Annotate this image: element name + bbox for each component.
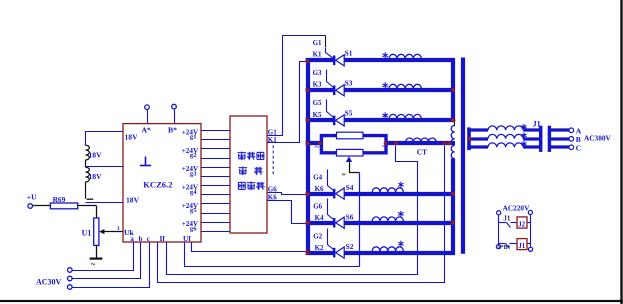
svg-text:S5: S5 xyxy=(345,108,353,117)
terminal circle B xyxy=(569,137,574,142)
trigger board box (six-unit final stage) xyxy=(230,116,267,233)
thyristor S5 cathode bar xyxy=(333,116,335,126)
svg-text:K1: K1 xyxy=(313,51,322,59)
smoothing inductor row S2 xyxy=(372,247,403,251)
junction dot row S6 right bus xyxy=(451,221,455,225)
wire KCZ6.2 output 8 to trigger board xyxy=(202,194,231,196)
wire K6: board to bus at S6 row xyxy=(268,201,306,224)
potentiometer U1 body xyxy=(94,218,99,245)
svg-text:3: 3 xyxy=(340,173,346,176)
terminal circle A xyxy=(569,128,574,133)
contact J1 (rung 1) xyxy=(499,222,507,224)
shunt resistor RS upper xyxy=(337,132,364,139)
terminal B* stub and circle xyxy=(174,110,176,124)
transformer core line xyxy=(461,58,465,254)
junction dot row S4 right bus xyxy=(451,192,455,196)
wire KCZ6.2 output 3 to trigger board xyxy=(202,148,231,150)
wire AC30V-3 to pin c xyxy=(73,243,150,288)
trigger board text line3 触发板 xyxy=(238,182,245,189)
row S1: thick wire thyristor to bus V1 xyxy=(344,58,455,62)
svg-text:a: a xyxy=(130,235,134,243)
junction dot row S3 right bus xyxy=(451,88,455,92)
svg-text:g6: g6 xyxy=(190,225,197,232)
svg-text:b: b xyxy=(139,235,143,243)
primary winding phase C lead xyxy=(467,145,488,148)
row S2: thick wire thyristor to bus V1 xyxy=(344,251,455,255)
svg-text:K5: K5 xyxy=(313,111,322,119)
wire KCZ6.2 output 2 to trigger board xyxy=(202,139,231,141)
left cathode bus (vertical) xyxy=(306,58,310,255)
terminal A* stub and circle xyxy=(147,110,149,124)
svg-text:If: If xyxy=(160,234,166,243)
primary winding phase B lead xyxy=(467,137,488,140)
wire winding to contactor phase B xyxy=(523,137,541,140)
wire G1: board to S1 gate xyxy=(268,36,326,136)
svg-text:R69: R69 xyxy=(53,195,66,204)
wire coil J1 to right rail xyxy=(528,243,531,245)
svg-text:S2: S2 xyxy=(346,242,354,251)
asterisk phase A xyxy=(523,124,525,130)
junction dot V1 top of winding xyxy=(452,119,456,123)
wire G6: board to bus at S4 row xyxy=(268,193,306,195)
junction dot shunt row on left bus xyxy=(306,142,310,146)
svg-text:J1: J1 xyxy=(503,214,511,222)
gate stub S6 xyxy=(328,199,334,220)
ground symbol below U1 xyxy=(90,258,103,260)
svg-text:G2: G2 xyxy=(313,233,322,241)
junction dot row S4 left bus xyxy=(306,192,310,196)
row S1: thick wire bus to thyristor xyxy=(306,58,333,62)
primary winding phase B xyxy=(488,134,523,138)
wire K1: board to cathode bus xyxy=(268,62,306,143)
thyristor S3 triangle xyxy=(336,85,345,96)
svg-text:KCZ6.2: KCZ6.2 xyxy=(143,179,172,189)
asterisk mark row S3 xyxy=(384,82,386,88)
smoothing inductor row S6 xyxy=(372,217,403,221)
resistor R69 xyxy=(50,203,77,209)
svg-text:S3: S3 xyxy=(345,78,353,87)
wire winding to contactor phase A xyxy=(523,128,541,131)
svg-text:G3: G3 xyxy=(313,69,322,77)
junction dot K1 on bus xyxy=(305,59,309,63)
junction dot Uf+ on bus xyxy=(306,250,310,254)
terminal circle AC220V left xyxy=(497,211,501,215)
primary winding phase A lead xyxy=(467,128,488,131)
svg-text:g5: g5 xyxy=(190,207,197,214)
svg-text:Uf: Uf xyxy=(183,234,191,243)
right bus V1 lower segment xyxy=(451,159,455,255)
wire contactor to terminal A xyxy=(549,128,569,131)
row S4: thick wire bus to thyristor xyxy=(306,192,333,196)
wire If+ : KCZ pin to CT left terminal xyxy=(167,146,418,275)
svg-text:G1: G1 xyxy=(313,39,322,47)
junction dot row S3 left bus xyxy=(306,88,310,92)
relay ladder right rail xyxy=(530,215,532,248)
thyristor S4 triangle xyxy=(336,188,345,199)
thyristor S1 cathode bar xyxy=(333,56,335,66)
wire contactor to terminal C xyxy=(549,145,569,148)
svg-text:g1: g1 xyxy=(190,134,197,141)
terminal circle AC30V-2 xyxy=(68,276,73,281)
junction dot K6 wire on bus xyxy=(306,221,310,225)
potentiometer U1 wiper to Uk xyxy=(103,231,123,233)
trigger board text line1 六单元 xyxy=(238,152,247,161)
svg-text:AC380V: AC380V xyxy=(584,134,611,143)
right bus V1 upper segment xyxy=(451,58,455,120)
wire If- : KCZ pin to CT right terminal xyxy=(158,146,445,283)
contactor J1 contact phase A xyxy=(539,126,542,135)
svg-text:+U: +U xyxy=(27,193,37,202)
junction dot row S6 left bus xyxy=(306,221,310,225)
junction dot row S2 left bus xyxy=(306,251,310,255)
gate stub S4 xyxy=(328,170,334,191)
terminal circle AC220V right xyxy=(528,210,532,214)
svg-text:J1: J1 xyxy=(533,119,541,128)
wire KCZ6.2 output 5 to trigger board xyxy=(202,167,231,169)
row S4: thick wire thyristor to bus V1 xyxy=(344,192,455,196)
gate stub S2 xyxy=(328,229,334,250)
svg-text:K6: K6 xyxy=(315,185,324,193)
contact A*B* (rung 2) xyxy=(499,243,506,245)
relay coil J1 xyxy=(517,239,527,250)
junction dot G6 wire on bus xyxy=(306,192,310,196)
svg-text:g2: g2 xyxy=(190,152,197,159)
terminal circle bottom left xyxy=(496,245,500,249)
wire KCZ6.2 output 9 to trigger board xyxy=(202,203,231,205)
svg-text:18V: 18V xyxy=(89,150,103,159)
svg-text:AC30V: AC30V xyxy=(36,278,62,287)
wire KCZ6.2 output 1 to trigger board xyxy=(202,130,231,132)
contactor J1 contact phase C xyxy=(539,143,542,152)
terminal circle AC30V-1 xyxy=(68,268,73,273)
svg-text:A*: A* xyxy=(142,126,151,135)
wire KCZ6.2 output 7 to trigger board xyxy=(202,185,231,187)
trigger board text line2 末级 xyxy=(239,167,248,176)
window frame right edge xyxy=(620,0,622,304)
svg-text:K4: K4 xyxy=(315,214,324,222)
current transformer CT winding xyxy=(406,138,436,142)
window frame bottom edge xyxy=(0,300,623,302)
shunt wiper arrow xyxy=(346,156,352,162)
thyristor S6 cathode bar xyxy=(333,218,335,228)
wire coil J2 to right rail xyxy=(528,222,531,224)
svg-text:S4: S4 xyxy=(346,183,354,192)
svg-text:A*B*: A*B* xyxy=(497,245,511,251)
asterisk mark row S5 xyxy=(384,112,386,118)
svg-text:18V: 18V xyxy=(125,132,139,141)
svg-text:J2: J2 xyxy=(518,221,525,228)
row S5: thick wire bus to thyristor xyxy=(306,118,333,122)
svg-text:S6: S6 xyxy=(346,212,354,221)
wire winding top to KCZ 18V pin xyxy=(86,132,124,146)
wire KCZ6.2 output 4 to trigger board xyxy=(202,158,231,160)
thyristor S2 triangle xyxy=(336,247,345,258)
row S6: thick wire thyristor to bus V1 xyxy=(344,221,455,225)
svg-text:J1: J1 xyxy=(518,243,525,250)
wire KCZ6.2 output 6 to trigger board xyxy=(202,176,231,178)
svg-text:CT: CT xyxy=(417,148,427,157)
shunt loop wiring xyxy=(321,136,386,153)
resistor R69 lead left xyxy=(33,205,51,207)
svg-text:G6: G6 xyxy=(313,203,322,211)
svg-text:K3: K3 xyxy=(313,81,322,89)
svg-text:18V: 18V xyxy=(89,172,103,181)
thyristor S5 triangle xyxy=(336,115,345,126)
wire winding to contactor phase C xyxy=(523,145,541,148)
thyristor S3 cathode bar xyxy=(333,86,335,96)
terminal circle AC30V-3 xyxy=(68,285,73,290)
asterisk mark row S6 xyxy=(400,211,402,217)
asterisk phase B xyxy=(523,133,525,139)
resistor R69 lead right xyxy=(78,205,97,207)
smoothing inductor row S4 xyxy=(372,188,403,192)
ground pin symbol inside KCZ6.2 xyxy=(140,157,151,166)
smoothing inductor row S3 xyxy=(389,84,421,89)
terminal circle +U xyxy=(28,204,33,209)
svg-text:G4: G4 xyxy=(313,174,322,182)
potentiometer U1 lead top xyxy=(96,206,98,219)
wire KCZ6.2 output 10 to trigger board xyxy=(202,213,231,215)
asterisk mark row S1 xyxy=(384,52,386,58)
asterisk phase C xyxy=(523,141,525,147)
asterisk mark row S4 xyxy=(400,182,402,188)
svg-text:18V: 18V xyxy=(126,196,140,205)
wire bus to shunt loop xyxy=(306,141,322,145)
thyristor S4 cathode bar xyxy=(333,189,335,199)
gate stub S5 xyxy=(327,100,334,118)
row S2: thick wire bus to thyristor xyxy=(306,251,333,255)
wire contactor to terminal B xyxy=(549,137,569,140)
junction dot shunt loop left xyxy=(318,142,322,146)
thyristor S2 cathode bar xyxy=(333,248,335,258)
terminal circle bottom right xyxy=(529,247,533,251)
wire shunt to V1 through CT xyxy=(386,141,455,145)
contactor J1 contact phase B xyxy=(539,134,542,143)
junction dot CT left tap xyxy=(394,142,398,146)
primary winding phase C xyxy=(488,143,523,147)
svg-text:2: 2 xyxy=(314,145,320,148)
wire KCZ6.2 output 11 to trigger board xyxy=(202,222,231,224)
svg-text:K2: K2 xyxy=(315,244,324,252)
svg-text:c: c xyxy=(147,235,150,243)
junction dot shunt loop right xyxy=(384,142,388,146)
smoothing inductor row S5 xyxy=(389,114,421,119)
thyristor S6 triangle xyxy=(336,217,345,228)
gate stub S3 xyxy=(327,70,334,88)
relay ladder left rail xyxy=(498,215,500,245)
op-amp module KCZ6.2 box xyxy=(123,124,201,242)
wire AC30V-1 to pin a xyxy=(73,243,134,271)
svg-text:U1: U1 xyxy=(82,228,92,237)
svg-text:AC220V: AC220V xyxy=(503,204,530,213)
wire Uf- : KCZ pin to shunt wiper xyxy=(185,243,360,267)
junction dot row S5 left bus xyxy=(306,119,310,123)
junction dot row S5 right bus xyxy=(451,119,455,123)
row S5: thick wire thyristor to bus V1 xyxy=(344,118,455,122)
primary star bar xyxy=(467,127,471,150)
asterisk mark row S2 xyxy=(400,241,402,247)
wire winding center tap to KCZ ground pin xyxy=(86,166,124,168)
wire Uf+ : KCZ pin to left bus bottom xyxy=(192,243,306,252)
relay coil J2 xyxy=(517,217,527,228)
row S6: thick wire bus to thyristor xyxy=(306,221,333,225)
svg-text:2: 2 xyxy=(89,262,95,265)
svg-text:B*: B* xyxy=(168,126,177,135)
winding bottom ground tick xyxy=(87,198,94,200)
svg-text:G5: G5 xyxy=(313,99,322,107)
thyristor S1 triangle xyxy=(336,55,345,66)
svg-text:g4: g4 xyxy=(190,189,197,196)
potentiometer U1 lead bottom xyxy=(96,245,98,257)
primary winding phase A xyxy=(488,126,523,130)
junction dot CT right tap xyxy=(442,142,446,146)
shunt resistor RS lower xyxy=(337,149,364,156)
row S3: thick wire thyristor to bus V1 xyxy=(344,88,455,92)
wire KCZ6.2 output 12 to trigger board xyxy=(202,231,231,233)
wire AC30V-2 to pin b xyxy=(73,243,141,279)
smoothing inductor row S1 xyxy=(389,54,421,59)
row S3: thick wire bus to thyristor xyxy=(306,88,333,92)
svg-text:C: C xyxy=(576,144,581,153)
wire bias node to KCZ 18V lower pin xyxy=(86,202,124,204)
svg-text:g3: g3 xyxy=(190,170,197,177)
junction dot CT row near V1 xyxy=(447,142,451,146)
transformer secondary winding on V1 xyxy=(453,121,455,126)
junction dot star bar xyxy=(467,137,471,141)
terminal circle C xyxy=(569,145,574,150)
sync winding T (center tapped) xyxy=(85,144,87,145)
dashed ellipsis line between K1 and G6 outputs xyxy=(272,146,274,177)
svg-text:S1: S1 xyxy=(345,48,353,57)
